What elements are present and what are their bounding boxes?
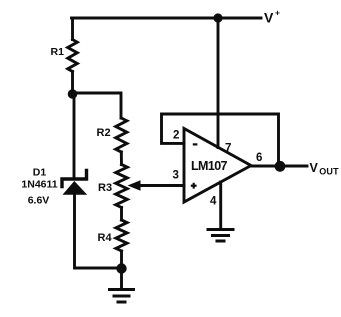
svg-text:R2: R2 [97,127,111,139]
ground (op-amp) [207,230,235,242]
wire output pin 6 to Vout [251,165,307,168]
svg-text:2: 2 [173,130,179,142]
wire pin 4 to ground [219,182,222,229]
svg-text:R1: R1 [51,46,65,58]
wire node A to R2 branch [73,93,122,118]
wire R2 to R3 [120,152,123,165]
svg-text:D1: D1 [33,167,47,179]
wire V+ to pin 7 [217,18,220,148]
junction node V+ rail [213,13,222,22]
wire node B to ground [120,269,123,289]
wire node B to D1 anode [75,195,122,269]
svg-text:4: 4 [210,196,217,208]
wire V+ rail to R1 [71,18,74,40]
svg-text:+: + [275,8,280,18]
svg-text:3: 3 [173,170,179,182]
svg-text:V: V [310,161,319,175]
resistor R4 [116,220,127,251]
resistor R1 [68,40,78,72]
wire R3 to R4 [120,208,123,221]
svg-text:1N4611: 1N4611 [21,179,57,191]
label minus input [193,143,198,145]
junction node A (R1 / D1 / R2) [68,89,78,99]
wire R4 to node B [120,251,123,269]
wire D1 cathode to node A [73,94,75,179]
ground (bottom) [108,290,135,303]
svg-text:OUT: OUT [319,167,339,177]
potentiometer R3 [116,165,128,208]
svg-text:6: 6 [256,152,262,164]
junction node output [275,161,286,172]
wire feedback pin 2 to output [162,114,279,167]
zener diode D1 [62,171,87,195]
junction node B (R4 / D1 / ground) [116,263,126,273]
resistor R2 [116,118,127,152]
wire top rail V+ [72,17,262,20]
svg-text:LM107: LM107 [191,159,228,173]
svg-text:R4: R4 [98,232,113,244]
wire R3 wiper arm to op-amp pin 3 [136,184,184,187]
wire R1 to node A [71,72,74,95]
svg-text:R3: R3 [98,182,112,194]
svg-text:7: 7 [225,143,231,155]
svg-text:V: V [264,10,274,26]
op-amp U1 LM107 [184,129,251,203]
label plus input [191,185,197,187]
svg-text:6.6V: 6.6V [28,195,50,207]
